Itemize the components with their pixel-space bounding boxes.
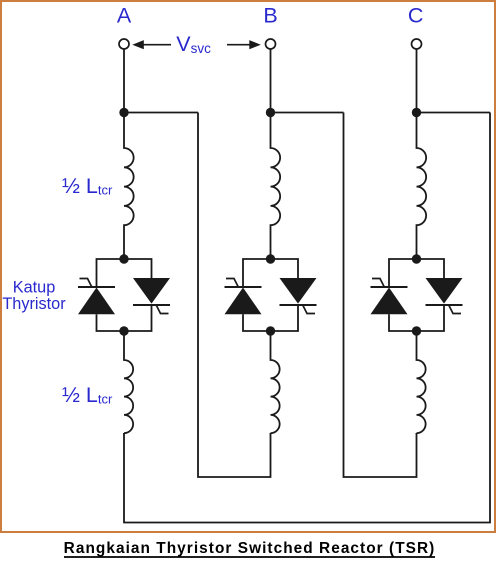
wire branch B top (271, 112, 344, 114)
wire phase C terminal to junction (416, 49, 418, 113)
terminal B (266, 39, 276, 49)
wire phase B terminal to junction (270, 49, 272, 113)
svg-text:B: B (263, 4, 277, 28)
svg-text:Katup: Katup (13, 279, 56, 297)
svg-text:Thyristor: Thyristor (2, 295, 66, 313)
inductor L1a (phase A upper) (124, 113, 134, 260)
wire branch C top (417, 112, 491, 114)
Vsvc left arrow (132, 40, 171, 49)
svg-text:A: A (117, 4, 132, 28)
wire branch B down and across to phase C bottom (344, 113, 417, 478)
svg-text:C: C (408, 4, 424, 28)
junction dot phase B (266, 108, 275, 117)
inductor L2a (phase B upper) (271, 113, 281, 260)
thyristor valve 2 (phase B) (225, 254, 317, 335)
terminal C (412, 39, 422, 49)
junction dot phase A (119, 108, 128, 117)
svg-text:Rangkaian Thyristor Switched R: Rangkaian Thyristor Switched Reactor (TS… (64, 540, 436, 557)
junction dot phase C (412, 108, 421, 117)
inductor L2b (phase B lower) (271, 331, 280, 433)
thyristor valve 3 (phase C) (371, 254, 463, 335)
label Katup Thyristor (2, 279, 66, 313)
terminal A (119, 39, 129, 49)
wire branch A down and across to phase B bottom (198, 113, 271, 478)
Vsvc right arrow (227, 40, 261, 49)
wire branch A top (124, 112, 198, 114)
inductor L3a (phase C upper) (417, 113, 427, 260)
inductor L3b (phase C lower) (417, 331, 426, 433)
thyristor valve 1 (phase A) (78, 254, 170, 335)
wire phase A bottom across and up to branch C (124, 113, 490, 523)
inductor L1b (phase A lower) (124, 331, 133, 433)
wire phase A terminal to junction (123, 49, 125, 113)
caption underline (64, 556, 435, 558)
